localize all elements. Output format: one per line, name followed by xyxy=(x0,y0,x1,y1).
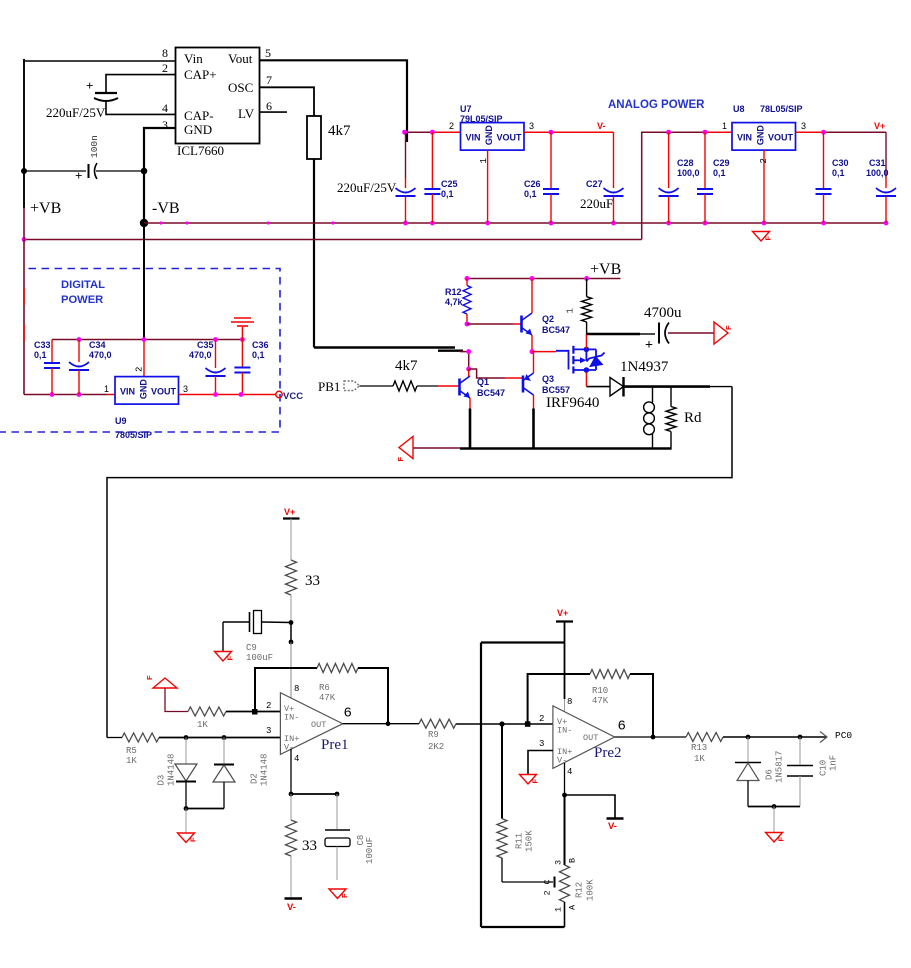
svg-text:C31: C31 xyxy=(869,158,886,168)
capacitor C36 0,1 xyxy=(234,340,268,395)
svg-text:33: 33 xyxy=(305,573,320,589)
svg-text:100uF: 100uF xyxy=(365,837,375,864)
svg-text:+VB: +VB xyxy=(590,261,621,278)
wire Q3 collector to ground xyxy=(533,395,535,409)
ground bus horizontal (bus1) xyxy=(144,222,886,224)
svg-text:Vout: Vout xyxy=(228,51,253,66)
svg-text:F: F xyxy=(531,779,540,784)
wire output to feedback loop down xyxy=(107,387,732,738)
svg-text:2: 2 xyxy=(449,121,454,131)
regulator U7 79L05/SIP xyxy=(460,104,524,150)
svg-text:C28: C28 xyxy=(677,158,694,168)
op-amp U Pre1 xyxy=(266,684,352,764)
wire flag to 1K xyxy=(165,688,188,712)
svg-text:1K: 1K xyxy=(694,754,705,764)
net flag F output filter xyxy=(766,833,783,843)
svg-text:1: 1 xyxy=(722,121,727,131)
net flag F above 1K xyxy=(153,678,177,688)
junction R12 top xyxy=(465,276,470,281)
svg-text:V-: V- xyxy=(284,743,294,753)
svg-text:100,0: 100,0 xyxy=(866,168,889,178)
svg-text:C26: C26 xyxy=(524,179,541,189)
capacitor C25 0,1 xyxy=(424,132,457,223)
svg-text:Pre2: Pre2 xyxy=(594,745,622,761)
transistor Q1 BC547 xyxy=(460,376,506,398)
junction Q1 collector node xyxy=(466,367,471,372)
wire Q2 emitter down xyxy=(531,335,533,352)
wire 1K to pin2 xyxy=(226,711,280,713)
svg-text:0,1: 0,1 xyxy=(441,189,454,199)
feedback wire pre2 xyxy=(528,674,590,724)
net flag F under C9 xyxy=(215,652,232,662)
capacitor C31 100,0 xyxy=(866,132,896,223)
wire bus2 riser to U8 VIN xyxy=(642,132,705,239)
svg-text:VIN: VIN xyxy=(466,133,481,143)
wire U7 VOUT to V- node xyxy=(524,131,614,133)
wire MOSFET source top xyxy=(585,334,587,349)
svg-text:C35: C35 xyxy=(197,340,214,350)
resistor 33 top xyxy=(286,560,321,595)
svg-text:78L05/SIP: 78L05/SIP xyxy=(760,104,803,114)
capacitor C10 1nF xyxy=(787,737,839,807)
wire R9 to pre2 pin2 xyxy=(456,723,553,725)
capacitor C29 0,1 xyxy=(697,132,730,223)
svg-text:R5: R5 xyxy=(126,746,137,756)
wire CAP+ pin2 xyxy=(106,75,176,93)
wire OSC run horizontal to transistor node xyxy=(314,346,455,348)
svg-text:ANALOG POWER: ANALOG POWER xyxy=(608,99,705,111)
svg-text:POWER: POWER xyxy=(61,294,103,306)
junction output node pre1 xyxy=(386,721,391,726)
wire OSC pin7 to 4k7 xyxy=(260,87,315,116)
junction pin8 node xyxy=(289,640,294,645)
junction D2 top xyxy=(222,735,227,740)
switch ground line xyxy=(460,447,672,450)
diode D3 1N4148 xyxy=(157,738,198,809)
wire R5 to pin3 xyxy=(159,737,280,739)
wire U8 VOUT to V+ corner xyxy=(796,131,824,133)
ground flag under U8 xyxy=(753,232,773,242)
svg-text:1K: 1K xyxy=(126,756,137,766)
svg-text:100uF: 100uF xyxy=(246,653,273,663)
wire V+ down to pin8 xyxy=(564,622,566,700)
diode D6 1N5817 xyxy=(735,737,785,807)
junction -VB at ground bus xyxy=(140,219,148,227)
dashed box DIGITAL POWER xyxy=(0,269,280,433)
wire U9 VOUT to VCC xyxy=(179,394,276,396)
capacitor C35 470,0 xyxy=(189,340,226,395)
svg-text:0,1: 0,1 xyxy=(713,168,726,178)
svg-text:6: 6 xyxy=(344,706,352,722)
svg-text:5: 5 xyxy=(265,46,271,60)
junction gate node xyxy=(530,349,535,354)
wire pin4 down xyxy=(290,749,292,795)
svg-text:R12: R12 xyxy=(575,882,585,898)
svg-text:3: 3 xyxy=(162,118,168,132)
row1 junction dots xyxy=(77,337,82,342)
svg-text:100K: 100K xyxy=(586,879,596,901)
inductor L relay coil xyxy=(644,387,655,449)
bus1 junction dots small xyxy=(159,221,162,224)
row2 junction dots right xyxy=(213,392,218,397)
svg-text:7805/SIP: 7805/SIP xyxy=(115,430,152,440)
wire pin3 to flag xyxy=(528,751,553,775)
svg-text:VOUT: VOUT xyxy=(151,387,177,397)
wire ICL7660 Vout to U7 VIN xyxy=(406,131,433,133)
wire V+ to R 33 top xyxy=(290,519,292,561)
wire R5 lead left xyxy=(107,737,122,739)
svg-text:470,0: 470,0 xyxy=(89,350,112,360)
digital VIN row wire xyxy=(24,394,107,396)
transistor Q3 BC557 xyxy=(523,373,570,395)
svg-text:F: F xyxy=(340,893,349,898)
svg-text:B: B xyxy=(568,858,578,863)
svg-text:VOUT: VOUT xyxy=(497,133,523,143)
wire pre2 output xyxy=(615,736,686,738)
junction R11 node xyxy=(499,721,504,726)
junction feedback tap pre2 xyxy=(525,721,531,727)
wire R12 to Q2 base xyxy=(467,323,513,325)
svg-text:2K2: 2K2 xyxy=(428,742,444,752)
row2 junction dots xyxy=(50,392,55,397)
pin 1 GND of U7 to ground bus xyxy=(487,150,489,223)
svg-text:4: 4 xyxy=(294,754,299,764)
resistor R9 2K2 xyxy=(419,719,456,752)
svg-text:33: 33 xyxy=(302,838,317,854)
svg-text:U7: U7 xyxy=(460,104,472,114)
pin 2 GND of U8 to ground bus xyxy=(763,150,765,223)
wire GND pin3 to -VB rail xyxy=(144,128,176,223)
trimmer R12 100K xyxy=(554,858,596,927)
junction C8 top xyxy=(335,792,340,797)
wire node down to Q1/Q3 node xyxy=(468,352,470,369)
junction R12 bottom node xyxy=(465,322,470,327)
junction D3 top xyxy=(184,735,189,740)
junction C26 top xyxy=(549,130,554,135)
junction node 100n left xyxy=(21,168,27,174)
op-amp U Pre2 xyxy=(539,697,626,777)
svg-text:4,7k: 4,7k xyxy=(445,297,464,307)
svg-text:V-: V- xyxy=(597,121,606,131)
capacitor 220uF/25V pump cap xyxy=(46,78,118,120)
svg-text:6: 6 xyxy=(618,719,626,735)
svg-text:V+: V+ xyxy=(557,608,568,618)
wire PB1 to 4k7 xyxy=(360,385,394,387)
svg-text:C33: C33 xyxy=(34,340,51,350)
svg-text:7: 7 xyxy=(266,73,272,87)
power symbol V+ pre1 xyxy=(283,507,300,519)
svg-text:1: 1 xyxy=(104,384,109,394)
earth ground symbol above C36 xyxy=(231,318,254,340)
wire +VB rail lower vertical into digital power xyxy=(23,208,25,395)
svg-text:1N4937: 1N4937 xyxy=(620,359,669,375)
wire GND riser to U9 xyxy=(143,340,145,378)
svg-text:R12: R12 xyxy=(445,287,462,297)
junction C9 node xyxy=(289,620,294,625)
svg-text:U8: U8 xyxy=(733,104,745,114)
svg-text:4: 4 xyxy=(162,101,168,115)
capacitor C28 100,0 xyxy=(659,132,700,223)
resistor 33 bottom xyxy=(286,794,318,897)
wire LV pin6 stub xyxy=(260,111,288,113)
transistor Q2 BC547 xyxy=(522,313,571,335)
wire +VB vertical rail upper xyxy=(23,59,25,208)
net flag F pre2 pin3 xyxy=(520,775,537,785)
wire node to V- pre2 xyxy=(565,795,616,818)
junction OSC node xyxy=(466,349,471,354)
svg-text:IN-: IN- xyxy=(284,713,299,723)
wire node to C8 xyxy=(291,793,337,795)
svg-text:8: 8 xyxy=(567,697,572,707)
power symbol V+ pre2 xyxy=(556,608,573,622)
wire node down to pin8 xyxy=(290,623,292,643)
svg-text:DIGITAL: DIGITAL xyxy=(61,279,105,291)
resistor 4k7 base xyxy=(393,358,418,391)
svg-text:+: + xyxy=(86,78,93,93)
wire node to flag xyxy=(185,809,187,834)
svg-text:VIN: VIN xyxy=(120,387,135,397)
svg-text:1nF: 1nF xyxy=(829,755,839,771)
svg-text:GND: GND xyxy=(756,125,766,146)
svg-text:3: 3 xyxy=(266,726,271,736)
svg-text:V-: V- xyxy=(287,902,296,913)
regulator U9 7805/SIP xyxy=(115,377,179,440)
svg-text:4: 4 xyxy=(567,767,572,777)
svg-text:1: 1 xyxy=(566,308,576,313)
wire Q3 emitter up xyxy=(533,352,535,373)
wire node to Q3 base xyxy=(469,369,505,378)
svg-text:CAP+: CAP+ xyxy=(184,67,217,82)
svg-text:ICL7660: ICL7660 xyxy=(177,143,224,158)
bottom rail to trimmer xyxy=(481,926,565,928)
thick wire V+ to left rail xyxy=(481,641,565,643)
svg-text:V-: V- xyxy=(608,821,617,832)
svg-text:0,1: 0,1 xyxy=(524,189,537,199)
svg-text:2: 2 xyxy=(543,890,553,895)
wire R13 to PC0 xyxy=(723,736,826,738)
regulator U8 78L05/SIP xyxy=(732,104,803,150)
svg-text:-VB: -VB xyxy=(152,200,180,217)
svg-text:R10: R10 xyxy=(592,686,608,696)
svg-text:VOUT: VOUT xyxy=(768,133,794,143)
svg-text:IN-: IN- xyxy=(557,726,572,736)
junction feedback tap pin2 xyxy=(252,709,258,715)
junction C25 top xyxy=(430,130,435,135)
wire D6 C10 bottoms xyxy=(748,806,800,808)
svg-text:CAP-: CAP- xyxy=(184,108,214,123)
capacitor C34 470,0 xyxy=(69,340,112,395)
wire source node to 4700u xyxy=(587,333,640,336)
net flag F under diodes xyxy=(178,833,195,843)
wire MOSFET drain bottom xyxy=(585,373,587,387)
wire pin4 to trimmer xyxy=(564,795,566,865)
wire Q2 collector to +VB xyxy=(531,279,533,314)
net flag F switch ground xyxy=(399,437,413,459)
capacitor C9 100uF xyxy=(223,611,291,664)
svg-text:Vin: Vin xyxy=(184,51,203,66)
trimmer wiper xyxy=(502,877,555,896)
svg-text:F: F xyxy=(764,236,773,241)
svg-text:Rd: Rd xyxy=(684,410,702,426)
svg-text:4700u: 4700u xyxy=(644,305,682,321)
svg-text:Q1: Q1 xyxy=(477,377,489,387)
svg-text:F: F xyxy=(226,656,235,661)
junction C28 top xyxy=(666,130,671,135)
svg-text:C10: C10 xyxy=(819,760,829,776)
wire diode bottoms join xyxy=(186,808,224,810)
junction C29 top xyxy=(703,130,708,135)
svg-text:IRF9640: IRF9640 xyxy=(546,395,599,411)
capacitor C30 0,1 xyxy=(816,132,849,223)
svg-text:3: 3 xyxy=(539,739,544,749)
resistor R6 47K xyxy=(317,664,358,704)
svg-text:470,0: 470,0 xyxy=(189,350,212,360)
svg-text:D6: D6 xyxy=(765,769,775,780)
IC U6 ICL7660 body xyxy=(176,48,260,159)
+VB bus horizontal (bus2) xyxy=(24,239,642,241)
junction D6 top xyxy=(746,735,751,740)
svg-text:F: F xyxy=(396,457,405,462)
wire pin4 down xyxy=(564,763,566,795)
junction C30 top xyxy=(821,130,826,135)
svg-text:R11: R11 xyxy=(515,833,525,849)
svg-text:2: 2 xyxy=(759,158,769,163)
svg-text:+: + xyxy=(75,168,82,183)
wire Q1 collector xyxy=(468,369,470,377)
capacitor C8 100uF xyxy=(325,794,375,880)
net flag F under C8 xyxy=(329,889,346,899)
svg-text:GND: GND xyxy=(484,125,494,146)
capacitor 100n with plus xyxy=(26,135,144,183)
svg-text:D3: D3 xyxy=(157,775,167,786)
svg-text:OUT: OUT xyxy=(583,733,598,743)
svg-text:47K: 47K xyxy=(592,696,609,706)
wire R10 to output xyxy=(630,674,653,737)
diode 1N4937 xyxy=(587,359,669,397)
svg-text:C9: C9 xyxy=(246,643,257,653)
junction source resistor top xyxy=(584,276,589,281)
svg-text:U9: U9 xyxy=(115,416,127,426)
svg-text:A: A xyxy=(568,904,578,910)
capacitor 220uF/25V filter (input of U7) xyxy=(337,132,416,223)
svg-text:R13: R13 xyxy=(691,743,707,753)
wire Q1 emitter to ground xyxy=(469,398,471,409)
wire 4k7 bottom down to transistor section xyxy=(313,159,315,348)
svg-text:C30: C30 xyxy=(832,158,849,168)
svg-text:+VB: +VB xyxy=(30,200,61,217)
svg-text:220uF/25V: 220uF/25V xyxy=(46,105,106,120)
svg-text:100n: 100n xyxy=(89,135,100,158)
svg-text:8: 8 xyxy=(162,46,168,60)
svg-text:R6: R6 xyxy=(319,683,330,693)
left rail vertical xyxy=(480,643,482,928)
svg-text:VCC: VCC xyxy=(283,391,303,402)
wire CAP- pin4 xyxy=(106,101,176,114)
svg-text:4k7: 4k7 xyxy=(395,358,418,374)
svg-text:1N4148: 1N4148 xyxy=(260,754,270,786)
capacitor C26 0,1 xyxy=(524,132,559,223)
svg-text:V-: V- xyxy=(557,756,567,766)
svg-text:Pre1: Pre1 xyxy=(321,737,349,753)
svg-text:1N5817: 1N5817 xyxy=(775,751,785,783)
bus1 junction dots xyxy=(403,221,408,226)
connector PB1 xyxy=(318,379,360,394)
svg-text:C34: C34 xyxy=(89,340,106,350)
svg-text:C27: C27 xyxy=(586,179,603,189)
wire 4k7 to Q1 base xyxy=(417,385,438,387)
svg-text:C29: C29 xyxy=(713,158,730,168)
svg-text:3: 3 xyxy=(529,121,534,131)
svg-text:0,1: 0,1 xyxy=(252,350,265,360)
svg-text:4k7: 4k7 xyxy=(328,123,351,139)
resistor Rd xyxy=(666,387,702,449)
resistor R12 4,7k xyxy=(445,279,471,325)
svg-text:V+: V+ xyxy=(874,121,885,131)
resistor R11 150K xyxy=(497,724,535,882)
junction Vout node xyxy=(402,130,407,135)
wire Vin pin8 to +VB rail xyxy=(24,60,176,62)
svg-text:220uF: 220uF xyxy=(580,196,613,211)
VCC port circle xyxy=(276,391,282,397)
svg-text:100,0: 100,0 xyxy=(677,168,700,178)
svg-text:220uF/25V: 220uF/25V xyxy=(337,180,397,195)
svg-text:2: 2 xyxy=(539,714,544,724)
port PC0 arrow xyxy=(820,732,827,743)
junction diode ground node xyxy=(184,806,189,811)
svg-text:1: 1 xyxy=(554,907,564,912)
svg-text:OSC: OSC xyxy=(228,80,253,95)
junction output node pre2 xyxy=(651,735,656,740)
svg-text:F: F xyxy=(145,675,154,680)
svg-text:C: C xyxy=(543,879,553,884)
junction pin4 node pre2 xyxy=(562,793,567,798)
MOSFET IRF9640 P-channel symbol xyxy=(546,346,605,411)
wire 4700u to flag xyxy=(668,332,714,334)
svg-text:150K: 150K xyxy=(525,830,535,852)
svg-text:47K: 47K xyxy=(319,693,336,703)
svg-text:BC557: BC557 xyxy=(542,385,570,395)
svg-text:BC547: BC547 xyxy=(477,388,505,398)
svg-text:6: 6 xyxy=(266,99,272,113)
svg-text:F: F xyxy=(777,837,786,842)
wire diode output xyxy=(624,385,711,388)
junction output filter ground xyxy=(772,804,777,809)
resistor R13 1K xyxy=(686,733,723,765)
svg-text:3: 3 xyxy=(183,384,188,394)
svg-text:79L05/SIP: 79L05/SIP xyxy=(460,114,503,124)
wire -VB rail into digital section xyxy=(143,223,145,340)
capacitor 4700u xyxy=(644,305,682,353)
digital cap top row wire xyxy=(52,339,242,341)
svg-text:F: F xyxy=(189,837,198,842)
svg-text:D2: D2 xyxy=(250,773,260,784)
wire to flag xyxy=(773,807,775,833)
capacitor C27 220uF xyxy=(580,132,624,223)
svg-text:2: 2 xyxy=(162,61,168,75)
svg-text:GND: GND xyxy=(139,379,149,400)
junction node 100n right at -VB xyxy=(141,168,148,175)
svg-text:C25: C25 xyxy=(441,179,458,189)
svg-text:OUT: OUT xyxy=(311,720,326,730)
svg-text:1: 1 xyxy=(479,158,489,163)
diode D2 1N4148 xyxy=(213,738,270,809)
power symbol V- pre2 xyxy=(607,819,624,833)
svg-text:C36: C36 xyxy=(252,340,269,350)
svg-text:VIN: VIN xyxy=(737,133,752,143)
svg-text:0,1: 0,1 xyxy=(832,168,845,178)
+VB feed line transistor section xyxy=(467,278,621,280)
svg-text:Q3: Q3 xyxy=(542,374,554,384)
